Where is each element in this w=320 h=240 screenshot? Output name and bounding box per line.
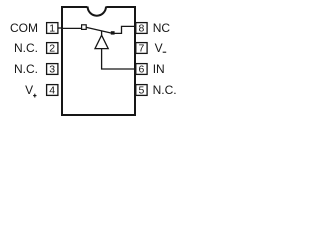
COM switch contact (open square) [82,25,87,30]
pin 6 box [136,64,147,76]
svg-text:6: 6 [138,64,144,76]
svg-text:2: 2 [49,43,55,55]
switch arm (closed to NC) [86,27,112,33]
driver triangle [95,35,108,48]
pin 4 box [47,85,58,97]
wire triangle to pin 6 IN [102,49,135,69]
svg-text:N.C.: N.C. [14,41,38,55]
svg-text:5: 5 [138,85,144,97]
svg-text:V: V [155,41,163,55]
wire NC node to pin 8 (step) [114,26,135,33]
svg-text:3: 3 [49,64,55,76]
wire pin1 stub (box to body) [58,27,62,29]
pin 1 box [47,23,58,35]
svg-text:7: 7 [138,43,144,55]
pin 2 box [47,43,58,55]
NC contact node (filled square) [111,31,115,34]
svg-text:IN: IN [153,62,165,76]
svg-text:4: 4 [49,85,55,97]
svg-text:COM: COM [10,21,38,35]
svg-text:NC: NC [153,21,171,35]
svg-text:N.C.: N.C. [153,83,177,97]
pin 7 box [136,43,147,55]
svg-text:N.C.: N.C. [14,62,38,76]
pin 5 box [136,85,147,97]
svg-text:1: 1 [49,23,55,35]
pin 3 box [47,64,58,76]
pin 8 box [136,23,147,35]
IC body U1 (DIP-8 outline) [62,5,135,115]
wire pin1 to COM contact [62,27,82,29]
driver stem to arm [101,31,103,36]
svg-text:V: V [25,83,33,97]
svg-text:8: 8 [138,23,144,35]
